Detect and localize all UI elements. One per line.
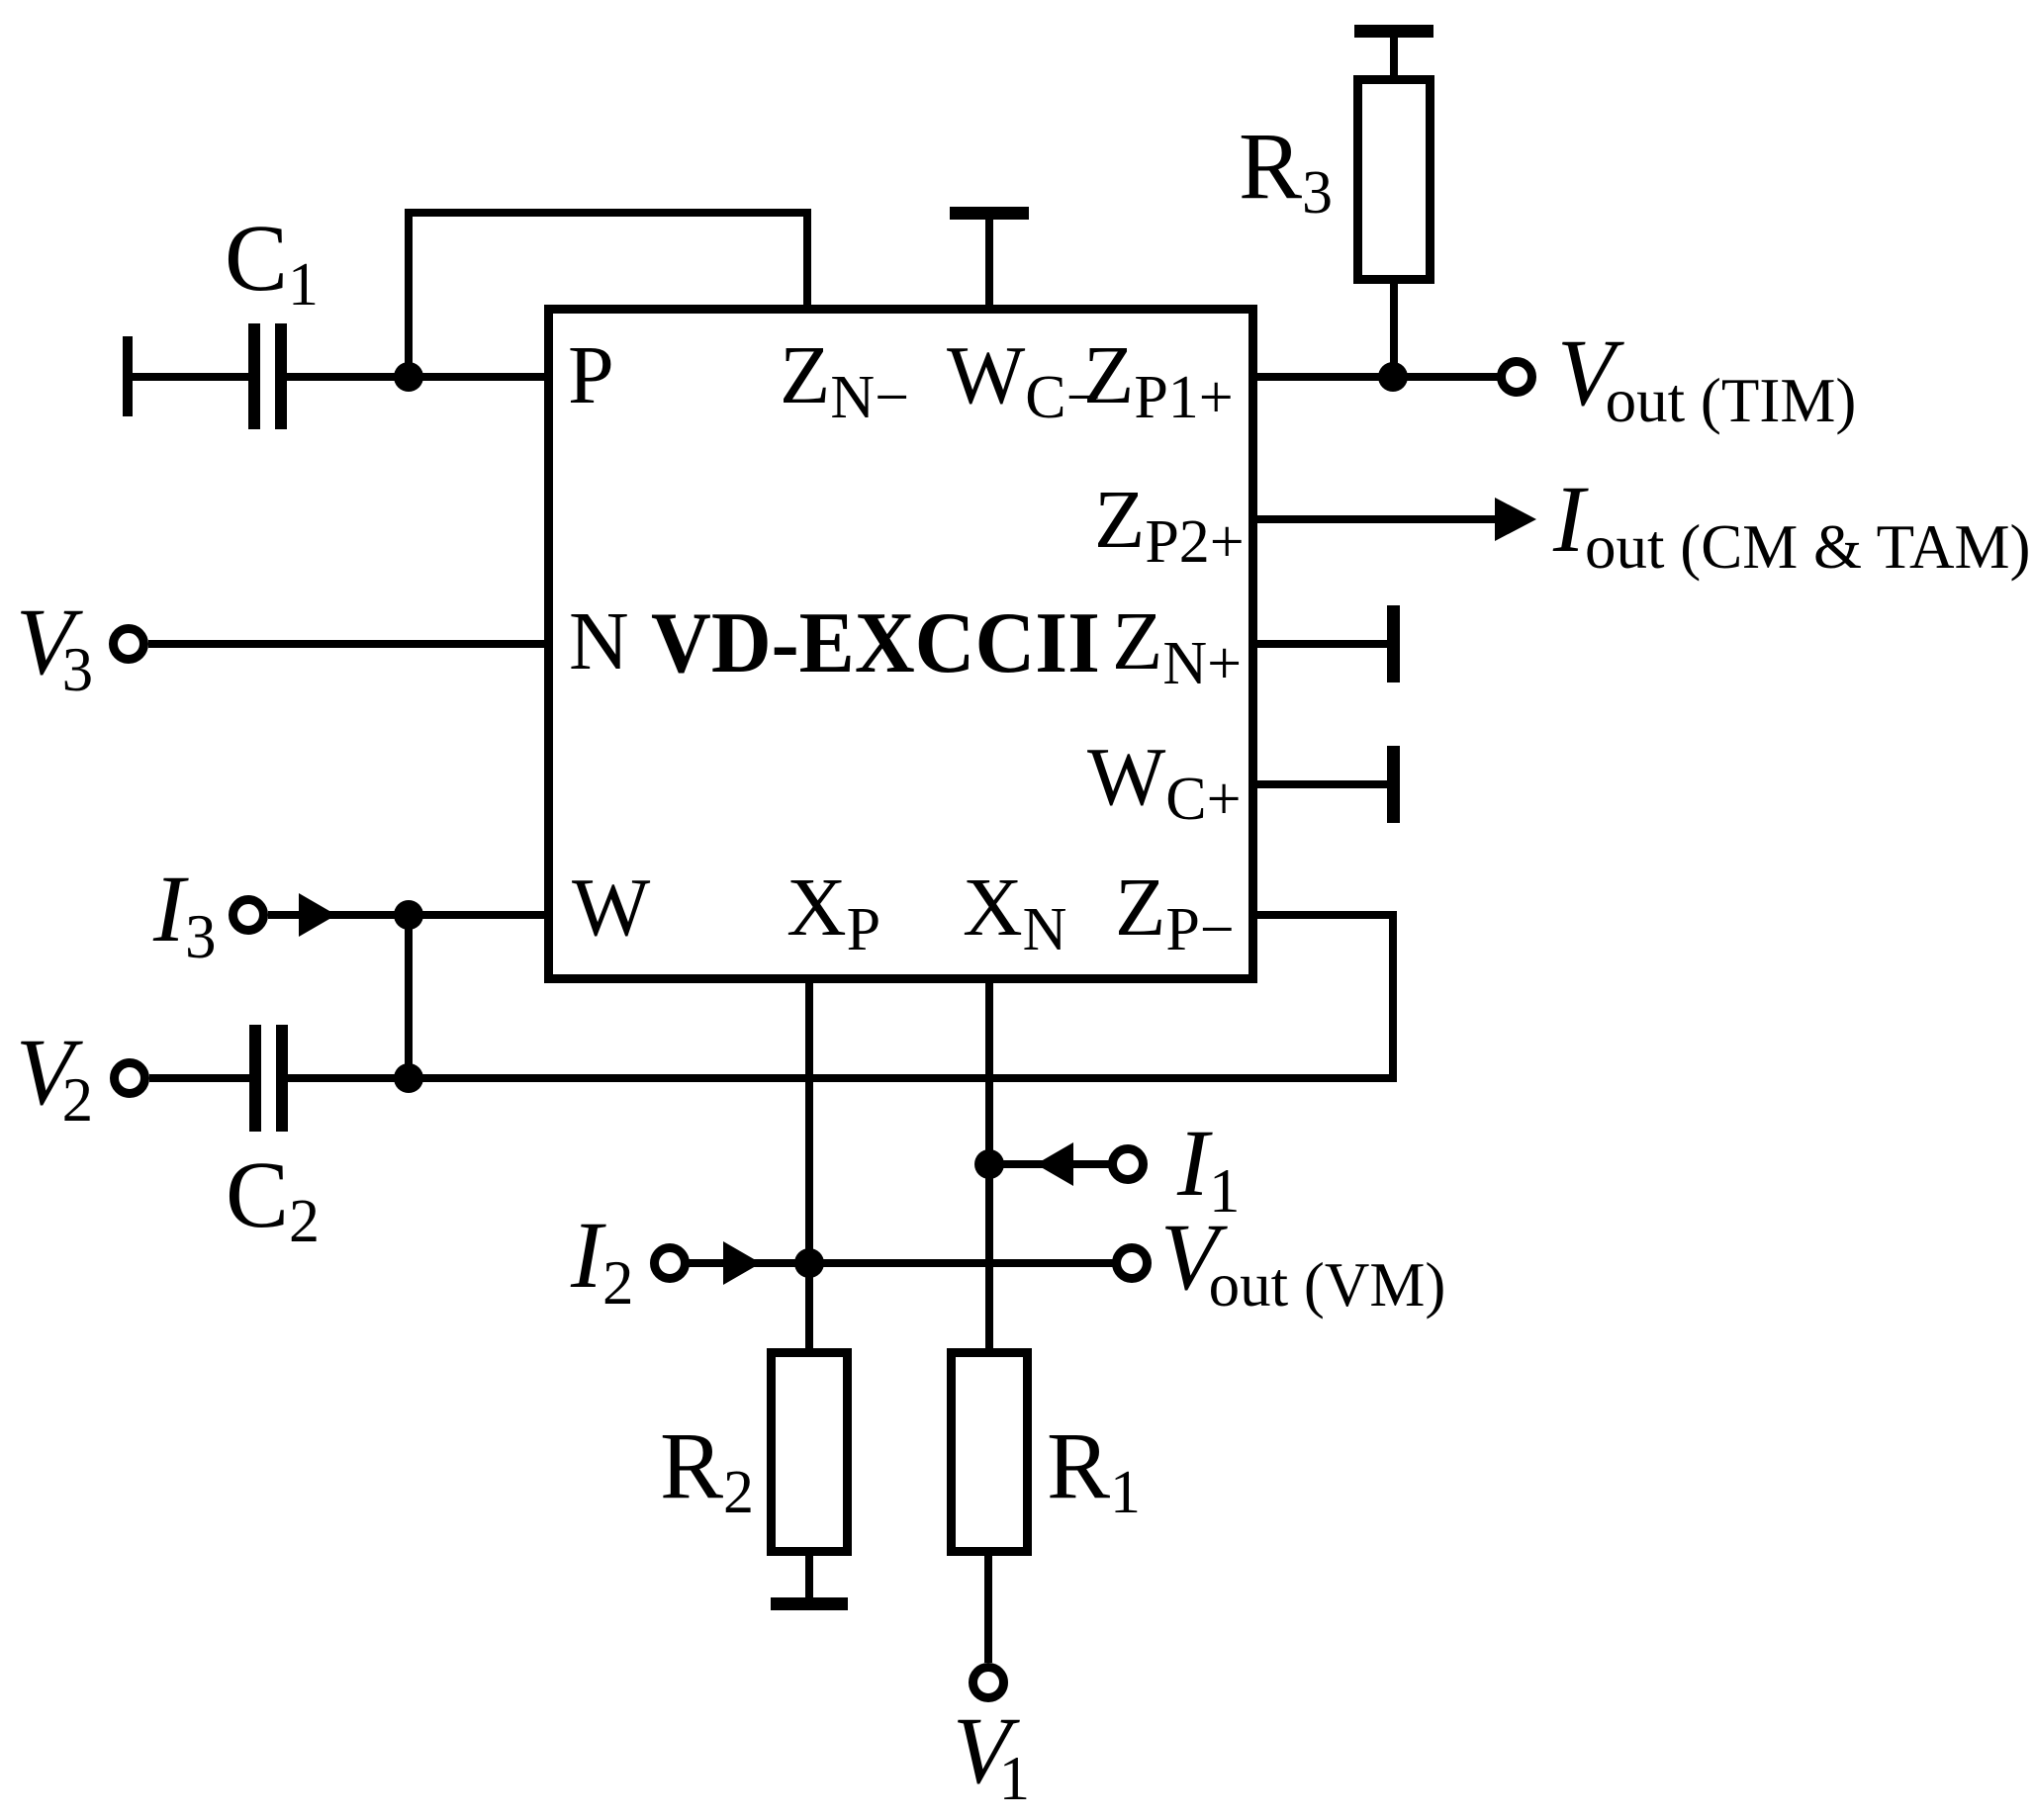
wire R1 to V1 (984, 1556, 992, 1663)
wire XP vertical (805, 983, 813, 1348)
wire R2 to ground (805, 1556, 813, 1597)
label V2 (16, 1025, 93, 1120)
pin label XP (786, 866, 880, 950)
label C2 (226, 1147, 320, 1242)
node I1 junction (974, 1149, 1004, 1179)
terminal Vout TIM (1497, 357, 1536, 397)
capacitor C1 left plate (248, 323, 260, 429)
terminal I2 (650, 1243, 690, 1283)
resistor R1 body (947, 1348, 1032, 1556)
wire WC- stub (985, 220, 993, 305)
wire P feedback left vertical (405, 209, 413, 377)
pin label ZP1+ (1083, 334, 1234, 417)
wire WC+ to T terminal (1257, 780, 1387, 788)
label I1 (1177, 1116, 1240, 1211)
resistor R2 body (767, 1348, 852, 1556)
label Iout (CM & TAM) (1553, 472, 2031, 567)
wire R3 to Vout TIM node (1390, 284, 1398, 377)
pin label ZN+ (1112, 600, 1242, 683)
label C1 (225, 211, 319, 306)
terminal Vout VM (1112, 1243, 1152, 1283)
label V1 (953, 1703, 1030, 1798)
wire ZP1+ to Vout TIM (1257, 373, 1499, 381)
wire C1 to P pin (287, 373, 544, 381)
IC box U1 VD-EXCCII (544, 305, 1257, 983)
wire ZP2+ to Iout (1257, 515, 1497, 523)
terminal I3 (229, 895, 268, 935)
pin label P (568, 334, 614, 417)
node I2 junction (794, 1248, 824, 1278)
capacitor C1 terminal bar (123, 336, 133, 416)
ground terminal WC- top bar (950, 207, 1029, 220)
ground R2 bar (771, 1597, 848, 1610)
wire ground to R3 (1390, 38, 1398, 75)
pin label ZP- (1115, 866, 1235, 950)
terminal V3 (109, 624, 148, 664)
wire I3 to W pin (268, 911, 544, 919)
wire ZN+ to T terminal (1257, 640, 1387, 648)
label Vout (TIM) (1557, 325, 1856, 420)
capacitor C1 right plate (275, 323, 287, 429)
label Vout (VM) (1160, 1210, 1445, 1305)
resistor R3 top ground bar (1354, 25, 1433, 38)
node P junction (394, 362, 423, 392)
terminal bar WC+ (1387, 746, 1400, 823)
pin label N (569, 600, 629, 683)
pin label XN (963, 866, 1066, 950)
wire I1 (993, 1160, 1109, 1168)
pin label ZN- (780, 334, 909, 417)
terminal bar ZN+ (1387, 605, 1400, 682)
pin label ZP2+ (1094, 479, 1245, 562)
wire W node down to V2 node (405, 915, 413, 1078)
arrow Iout (1495, 498, 1536, 541)
terminal V2 (110, 1058, 149, 1098)
wire P feedback top horizontal (405, 209, 811, 217)
label V3 (16, 594, 93, 689)
wire I2 to Vout VM (689, 1259, 1113, 1267)
wire terminal to C1 (133, 373, 248, 381)
wire P feedback right vertical to ZN- (803, 209, 811, 305)
arrow I3 (299, 893, 336, 937)
wire ZP- down (1389, 911, 1397, 1082)
node V2 junction (394, 1063, 423, 1093)
wire ZP- from box (1257, 911, 1397, 919)
terminal V1 (969, 1663, 1008, 1702)
resistor R3 body (1353, 75, 1434, 284)
wire V2 to C2 (149, 1074, 249, 1082)
pin label WC+ (1087, 736, 1242, 819)
label VD-EXCCII (651, 600, 1100, 687)
node W junction (394, 900, 423, 930)
label R2 (660, 1418, 754, 1513)
label R3 (1239, 119, 1333, 214)
label I2 (571, 1208, 633, 1303)
capacitor C2 right plate (276, 1025, 288, 1132)
terminal I1 (1108, 1144, 1148, 1184)
pin label WC- (947, 334, 1101, 417)
arrow I2 (723, 1241, 761, 1285)
wire C2 junction to ZP- return (288, 1074, 1397, 1082)
node Vout TIM junction (1378, 362, 1408, 392)
arrow I1 (1036, 1142, 1073, 1186)
wire XN vertical (985, 983, 993, 1348)
wire V3 to N pin (148, 640, 544, 648)
label I3 (153, 862, 216, 956)
label R1 (1047, 1418, 1141, 1513)
capacitor C2 left plate (249, 1025, 261, 1132)
pin label W (572, 866, 650, 950)
